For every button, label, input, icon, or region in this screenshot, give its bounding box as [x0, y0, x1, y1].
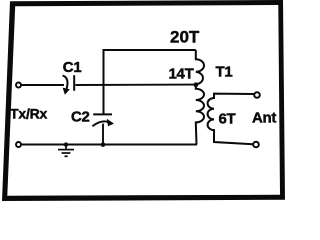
svg-text:C2: C2	[71, 108, 90, 125]
terminal left bottom (Tx/Rx ground)	[16, 142, 21, 147]
transformer T1 primary winding (20T/14T)	[196, 50, 204, 145]
C2 arrowhead	[107, 119, 114, 126]
svg-text:C1: C1	[63, 59, 82, 76]
svg-text:Tx/Rx: Tx/Rx	[10, 105, 48, 121]
svg-text:6T: 6T	[219, 110, 236, 127]
terminal left top (Tx/Rx hot)	[16, 83, 21, 88]
C2 bottom lead to rail	[102, 124, 104, 145]
junction dot 14T tap	[194, 82, 199, 87]
junction dot C2/rail	[101, 142, 106, 147]
svg-text:14T: 14T	[169, 65, 194, 82]
svg-text:20T: 20T	[170, 28, 200, 47]
border frame	[2, 0, 285, 201]
transformer T1 secondary winding (6T)	[208, 94, 254, 145]
svg-text:Ant: Ant	[252, 110, 276, 127]
ground symbol	[58, 142, 74, 156]
terminal right top (Ant)	[254, 92, 260, 98]
wire: C1 to transformer 14T tap	[76, 84, 195, 86]
wire: left top terminal to C1	[22, 84, 64, 86]
C1 arrowhead	[63, 88, 70, 95]
capacitor C2 (variable)	[92, 114, 112, 126]
terminal right bottom (Ant)	[253, 142, 259, 148]
svg-text:T1: T1	[216, 63, 233, 80]
wire: tank vertical + 20T top wire	[104, 50, 196, 114]
capacitor C1 (variable)	[63, 75, 75, 91]
bottom rail wire	[22, 144, 197, 146]
